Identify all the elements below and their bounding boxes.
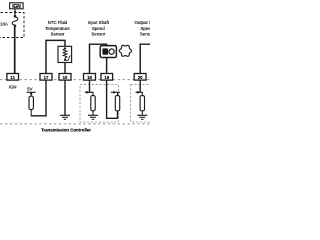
svg-text:19: 19 [104, 75, 109, 80]
5V supply [27, 86, 36, 96]
node on pin 20 net [136, 92, 143, 95]
wire pin 20 into controller [139, 80, 141, 92]
pull-up resistor to 5V [29, 96, 33, 109]
wire resistor to node [30, 110, 32, 117]
ground (input sensor) [88, 115, 98, 119]
svg-text:IGN: IGN [9, 84, 17, 89]
svg-text:Output Shaft: Output Shaft [134, 20, 150, 25]
wire pin 17 into controller [31, 80, 46, 116]
svg-text:10: 10 [63, 75, 68, 80]
svg-text:17: 17 [44, 75, 49, 80]
wire pin 18 into controller [89, 80, 91, 92]
fuse 10A [0, 15, 18, 27]
wire pin 10 into controller [64, 80, 66, 115]
svg-text:Speed: Speed [140, 26, 150, 31]
pin 18 [84, 74, 96, 81]
svg-text:5V: 5V [27, 86, 32, 91]
label NTC Fluid Temperature Sensor [45, 20, 70, 36]
bias resistor (pin 19 net) [115, 96, 119, 111]
output sensor interface circuit box (dashed, cut at right edge) [131, 85, 155, 122]
svg-text:11: 11 [10, 75, 15, 80]
ground (pin 10 return) [60, 115, 70, 119]
label Output Shaft Speed Sensor (cut at right edge) [134, 20, 159, 36]
svg-text:Sensor: Sensor [91, 32, 105, 37]
svg-text:Sensor: Sensor [140, 32, 150, 37]
controller bottom boundary (dashed blue) [0, 123, 150, 125]
pin 19 [101, 74, 113, 81]
svg-text:18: 18 [87, 75, 92, 80]
wire resistor to ground [141, 111, 143, 115]
fuse box (dashed) [0, 13, 24, 38]
ground (output sensor) [137, 115, 147, 119]
input sensor interface circuit box (dashed) [80, 85, 119, 122]
input shaft speed sensor body [100, 46, 116, 58]
pull-down resistor (pin 20 net) [140, 96, 144, 111]
junction node at fuse box border [14, 11, 16, 13]
svg-text:20: 20 [138, 75, 143, 80]
pin 11 [7, 74, 19, 81]
svg-text:Temperature: Temperature [45, 26, 70, 31]
pin 20 [134, 74, 146, 81]
input sensor tone wheel (gear) [119, 45, 131, 56]
wire pin 17 up and over to NTC sensor [46, 40, 65, 73]
wire input speed sensor to pin 19 [106, 58, 108, 74]
ignition source box IGN [10, 3, 24, 10]
wire pin 20 up and over to output speed sensor [140, 44, 150, 73]
svg-text:Input Shaft: Input Shaft [88, 20, 110, 25]
svg-text:Sensor: Sensor [51, 32, 65, 37]
svg-text:IGN: IGN [12, 4, 21, 10]
wire fuse to pin 11 [14, 27, 16, 74]
label Input Shaft Speed Sensor [88, 20, 110, 36]
pull-down resistor (pin 18 net) [91, 96, 95, 111]
internal rail terminal (pin 19 net) [117, 92, 119, 95]
node on pin 18 net [85, 92, 93, 95]
pin 10 [59, 74, 71, 81]
controller top boundary (dashed blue) [0, 79, 150, 81]
NTC sensor box [58, 46, 72, 62]
thermistor element [63, 47, 70, 61]
wire resistor to ground [92, 111, 94, 115]
wire NTC sensor to pin 10 [64, 63, 66, 74]
svg-text:NTC Fluid: NTC Fluid [48, 20, 68, 25]
svg-text:Transmission Controller: Transmission Controller [41, 128, 91, 133]
wire pin 18 up and over to input speed sensor [90, 44, 107, 73]
svg-text:10A: 10A [0, 21, 8, 26]
pin 17 [40, 74, 52, 81]
wire pin 19 into controller, around to bias resistor [107, 80, 118, 118]
wire IGN box to fuse [14, 9, 16, 16]
svg-text:Speed: Speed [92, 26, 105, 31]
